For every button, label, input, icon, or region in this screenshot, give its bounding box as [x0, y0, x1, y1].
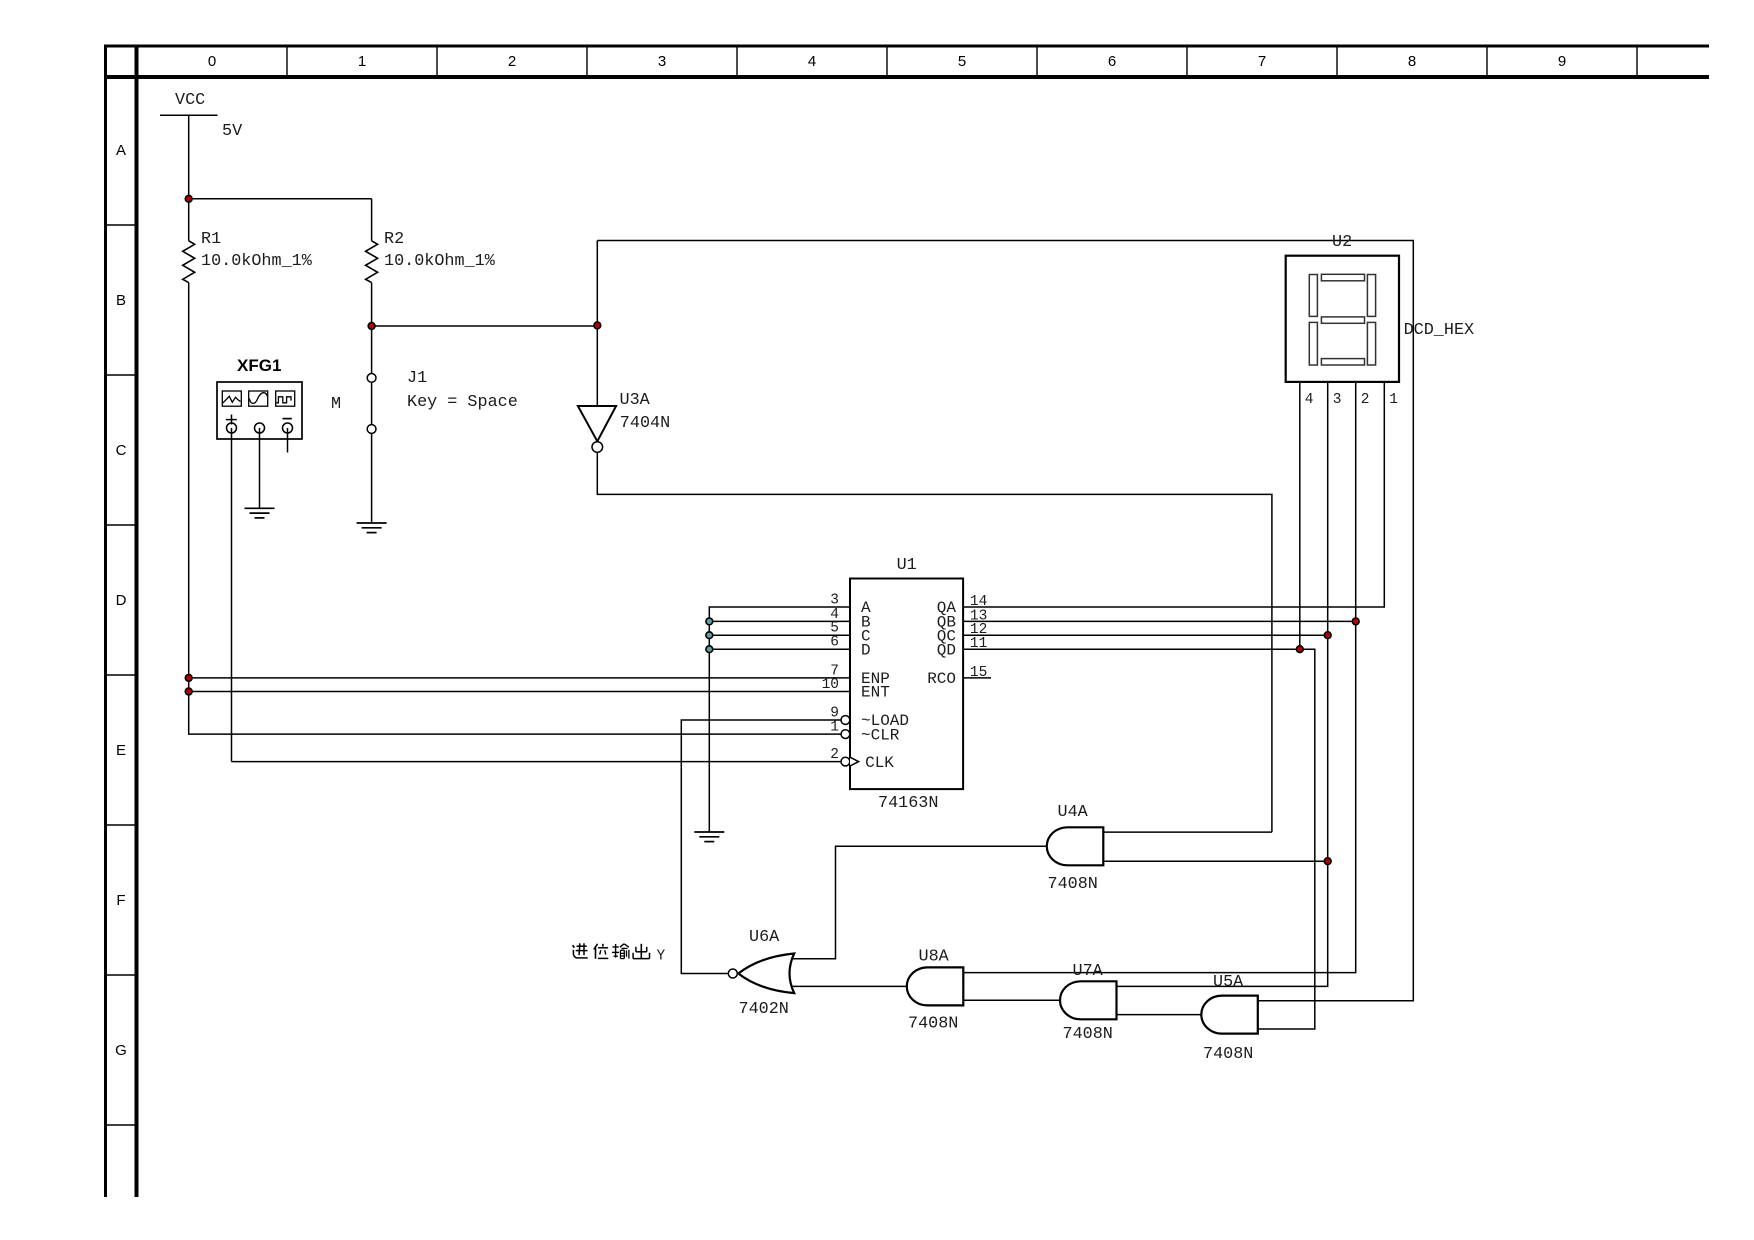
svg-text:~CLR: ~CLR — [861, 726, 900, 744]
svg-text:Key = Space: Key = Space — [407, 393, 518, 412]
svg-text:1: 1 — [830, 720, 839, 736]
svg-text:6: 6 — [830, 635, 839, 651]
svg-text:2: 2 — [1361, 392, 1370, 408]
svg-text:1: 1 — [1389, 392, 1398, 408]
svg-text:7404N: 7404N — [620, 414, 670, 433]
svg-text:U7A: U7A — [1073, 962, 1104, 981]
svg-text:U3A: U3A — [620, 391, 651, 410]
svg-text:8: 8 — [1408, 53, 1416, 70]
svg-text:VCC: VCC — [175, 91, 205, 110]
svg-text:2: 2 — [508, 53, 516, 70]
svg-text:5: 5 — [958, 53, 966, 70]
svg-text:7408N: 7408N — [908, 1015, 958, 1034]
svg-text:10: 10 — [822, 677, 839, 693]
svg-text:15: 15 — [970, 665, 987, 681]
svg-text:7402N: 7402N — [739, 1000, 789, 1019]
svg-text:7408N: 7408N — [1203, 1045, 1253, 1064]
svg-text:6: 6 — [1108, 53, 1116, 70]
svg-text:10.0kOhm_1%: 10.0kOhm_1% — [201, 252, 313, 271]
svg-text:Y: Y — [657, 949, 666, 965]
svg-text:G: G — [115, 1042, 127, 1059]
svg-text:0: 0 — [208, 53, 216, 70]
svg-text:4: 4 — [808, 53, 816, 70]
svg-text:9: 9 — [1558, 53, 1566, 70]
svg-text:DCD_HEX: DCD_HEX — [1404, 321, 1475, 340]
svg-text:3: 3 — [658, 53, 666, 70]
svg-text:A: A — [116, 142, 126, 159]
svg-text:U4A: U4A — [1058, 803, 1089, 822]
svg-text:U2: U2 — [1332, 233, 1352, 252]
svg-text:1: 1 — [358, 53, 366, 70]
svg-text:10.0kOhm_1%: 10.0kOhm_1% — [384, 252, 496, 271]
svg-text:E: E — [116, 742, 126, 759]
svg-text:ENT: ENT — [861, 684, 890, 702]
svg-text:7408N: 7408N — [1048, 875, 1098, 894]
svg-text:XFG1: XFG1 — [237, 356, 281, 375]
svg-text:M: M — [331, 395, 341, 414]
svg-text:D: D — [861, 641, 871, 659]
svg-text:3: 3 — [1333, 392, 1342, 408]
svg-text:U8A: U8A — [919, 948, 950, 967]
svg-text:11: 11 — [970, 636, 987, 652]
svg-text:74163N: 74163N — [878, 794, 938, 813]
svg-text:J1: J1 — [407, 369, 427, 388]
svg-text:U5A: U5A — [1213, 973, 1244, 992]
svg-text:5V: 5V — [222, 122, 242, 141]
svg-text:RCO: RCO — [927, 670, 956, 688]
svg-text:R1: R1 — [201, 230, 221, 249]
svg-text:D: D — [116, 592, 127, 609]
svg-text:4: 4 — [1305, 392, 1314, 408]
svg-text:2: 2 — [830, 747, 839, 763]
svg-text:QD: QD — [937, 641, 956, 659]
svg-text:7408N: 7408N — [1063, 1025, 1113, 1044]
svg-text:B: B — [116, 292, 126, 309]
svg-text:U1: U1 — [897, 556, 917, 575]
svg-text:CLK: CLK — [865, 754, 894, 772]
svg-text:F: F — [116, 892, 125, 909]
svg-text:R2: R2 — [384, 230, 404, 249]
svg-text:7: 7 — [1258, 53, 1266, 70]
svg-text:C: C — [116, 442, 127, 459]
svg-text:U6A: U6A — [749, 928, 780, 947]
